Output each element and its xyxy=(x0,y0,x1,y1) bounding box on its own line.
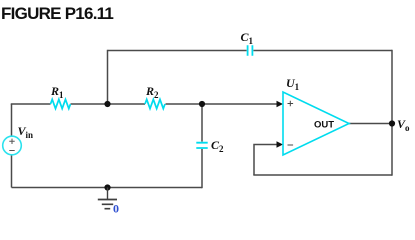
wire: feedback from - input left then down xyxy=(254,145,278,176)
wire: feedback bottom run xyxy=(253,174,392,176)
op-amp + input mark xyxy=(288,101,294,107)
wire: Vin top to R1 xyxy=(12,103,51,106)
wire: right vertical (top corner through Vo to feedback bottom) xyxy=(391,50,393,176)
svg-text:U1: U1 xyxy=(286,76,300,92)
wire: top feedback right segment (C1 to right corner) xyxy=(253,50,392,52)
arrowhead into + input xyxy=(277,101,284,108)
arrowhead into - input xyxy=(277,141,284,148)
svg-text:Vin: Vin xyxy=(18,124,34,140)
svg-text:0: 0 xyxy=(113,202,119,216)
wire: C2 branch lower xyxy=(201,149,203,188)
wire: vertical from top loop down to node A xyxy=(107,50,109,104)
wire: R2 to op-amp + input xyxy=(166,103,278,105)
Vin + polarity mark xyxy=(9,139,14,144)
resistor R1 xyxy=(51,99,71,108)
ground xyxy=(107,188,109,200)
svg-text:C1: C1 xyxy=(241,30,254,46)
svg-text:R1: R1 xyxy=(50,84,64,100)
node junction dot (R2/C2/op-amp) xyxy=(199,101,205,107)
svg-text:FIGURE P16.11: FIGURE P16.11 xyxy=(1,4,113,23)
wire: left vertical above Vin source xyxy=(11,104,13,136)
svg-text:C2: C2 xyxy=(211,138,224,154)
wire: bottom wire xyxy=(12,187,203,189)
op-amp - input mark xyxy=(288,144,294,146)
resistor R2 xyxy=(145,99,165,108)
node Vo junction dot xyxy=(389,120,395,126)
capacitor C1 xyxy=(248,45,253,56)
capacitor C2 xyxy=(196,143,207,148)
wire: left vertical below Vin source xyxy=(11,155,13,188)
svg-text:R2: R2 xyxy=(145,84,159,100)
node A junction dot (R1/R2/top loop) xyxy=(104,101,110,107)
wire: C2 branch upper xyxy=(201,104,203,142)
Vin - polarity mark xyxy=(9,150,14,152)
op-amp U1 xyxy=(283,92,349,155)
voltage source Vin xyxy=(3,136,22,155)
node junction dot (ground) xyxy=(104,184,110,190)
svg-text:OUT: OUT xyxy=(314,120,334,131)
wire: op-amp output to Vo node xyxy=(349,123,392,125)
wire: top feedback left segment (node to C1) xyxy=(108,50,247,52)
svg-text:Vo: Vo xyxy=(397,117,410,133)
wire: R1 to R2 through node A xyxy=(71,103,146,105)
